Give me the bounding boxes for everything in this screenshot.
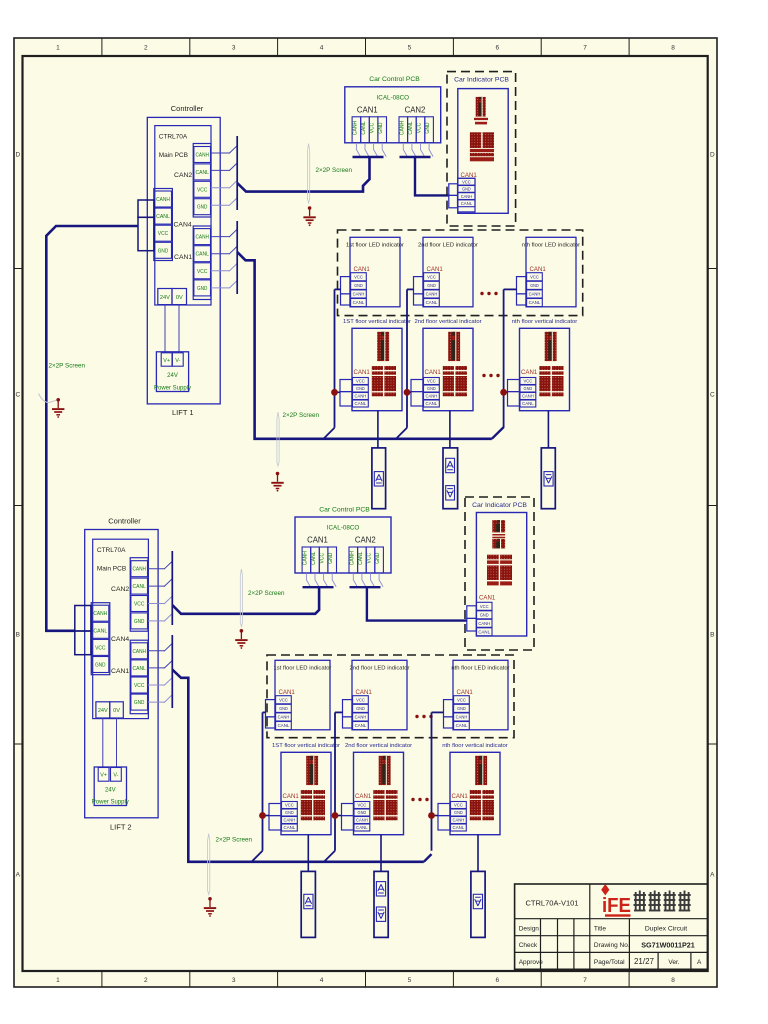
car control PCB (LIFT 2): [295, 507, 391, 574]
svg-text:2×2P Screen: 2×2P Screen: [316, 167, 353, 174]
svg-text:C: C: [710, 391, 715, 398]
svg-text:3: 3: [232, 45, 236, 52]
svg-text:24V: 24V: [105, 788, 116, 794]
svg-text:CAN1: CAN1: [427, 266, 444, 273]
svg-text:Design: Design: [519, 925, 540, 932]
ground (lift2 car cable screen): [235, 629, 247, 649]
svg-text:V-: V-: [175, 358, 180, 364]
ellipsis (bank 2 vertical row): [411, 798, 428, 801]
svg-text:CANH: CANH: [529, 292, 541, 297]
svg-text:CANH: CANH: [399, 121, 405, 136]
svg-text:2nd floor LED indicator: 2nd floor LED indicator: [350, 666, 410, 672]
svg-text:VCC: VCC: [134, 683, 144, 689]
svg-text:B: B: [16, 631, 20, 638]
svg-text:CAN1: CAN1: [354, 266, 371, 273]
svg-text:Main PCB: Main PCB: [159, 152, 188, 159]
svg-text:CANH: CANH: [352, 121, 358, 136]
svg-text:CANH: CANH: [355, 715, 367, 720]
IFE logo: [601, 884, 631, 917]
svg-text:GND: GND: [158, 248, 168, 254]
svg-text:CANL: CANL: [461, 201, 473, 206]
wire drop to hall box 2 (bank 1): [449, 411, 451, 448]
wire feed vertical indicator 1 (bank 2): [263, 815, 270, 817]
ground (bank 1 riser screen): [271, 472, 283, 492]
svg-text:CANH: CANH: [284, 818, 296, 823]
junction (bank 1 bus 1): [331, 389, 338, 396]
connector CAN2 (LIFT 2): [111, 558, 148, 632]
LED arrow matrix (car indicator PCB 2): [492, 520, 505, 548]
svg-text:CANL: CANL: [408, 121, 414, 135]
svg-text:CAN1: CAN1: [279, 689, 296, 696]
svg-text:Car Control PCB: Car Control PCB: [369, 76, 420, 83]
svg-text:V+: V+: [100, 773, 107, 779]
wire feed LED indicator (bank 1 x=503.6): [504, 288, 517, 290]
LED digit matrix (car indicator PCB 2): [487, 555, 512, 586]
wire feed vertical indicator n (bank 1): [504, 391, 508, 393]
plug CAN4 (LIFT 2): [75, 606, 91, 655]
controller LIFT 2: [85, 517, 158, 832]
svg-text:1ST floor vertical indicator: 1ST floor vertical indicator: [272, 743, 340, 749]
svg-text:CAN1: CAN1: [457, 689, 474, 696]
screen symbol (lift1 car cable): [308, 144, 310, 203]
hall call buttons up/down (bank 2 floor 2): [374, 871, 388, 937]
svg-text:CAN2: CAN2: [405, 105, 426, 114]
svg-text:24V: 24V: [160, 295, 170, 301]
screen symbol (lift2 car cable): [240, 569, 242, 627]
svg-text:VCC: VCC: [454, 803, 463, 808]
svg-text:LIFT 2: LIFT 2: [110, 823, 132, 832]
2nd floor LED indicator (bank 1): [418, 237, 478, 306]
svg-text:CANH: CANH: [522, 394, 534, 399]
svg-text:GND: GND: [95, 663, 105, 669]
svg-text:GND: GND: [197, 205, 207, 211]
svg-text:GND: GND: [356, 706, 365, 711]
connector CAN1 (car indicator PCB 1): [458, 172, 478, 212]
svg-text:3: 3: [232, 977, 236, 984]
screen symbol (bank 2 riser cable): [208, 834, 210, 895]
svg-text:CANH: CANH: [456, 715, 468, 720]
hall call button down (bank 1 floor n): [541, 448, 555, 509]
svg-text:CAN4: CAN4: [111, 636, 129, 643]
svg-text:CANH: CANH: [355, 394, 367, 399]
bus taps to trunk (bank 1): [324, 427, 504, 439]
LED arrow matrix (nth floor vertical indicator bank 1): [545, 332, 557, 361]
junction (bank 1 bus n): [500, 389, 507, 396]
svg-text:2: 2: [144, 977, 148, 984]
wire drop to hall box 1 (bank 2): [307, 835, 309, 872]
svg-text:Controller: Controller: [171, 104, 204, 113]
connector CAN1 (nth floor vertical indicator bank 2): [451, 793, 469, 831]
car indicator PCB (LIFT 1): [447, 72, 516, 226]
wire feed LED indicator (bank 2 x=262.5): [263, 711, 266, 713]
connector CAN1 (nth floor vertical indicator bank 1): [520, 369, 538, 407]
nth floor vertical indicator (bank 2): [442, 743, 508, 835]
car control PCB (LIFT 1): [345, 76, 441, 143]
wire feed LED indicator (bank 2 x=335): [335, 711, 343, 713]
svg-text:CTRL70A-V101: CTRL70A-V101: [526, 899, 579, 908]
wire CAN2 to car indicator PCB 2: [367, 587, 467, 620]
svg-text:CANL: CANL: [355, 723, 367, 728]
svg-text:Drawing No.: Drawing No.: [594, 942, 630, 949]
svg-text:CANL: CANL: [133, 666, 146, 672]
svg-text:ICAL-08CO: ICAL-08CO: [377, 94, 410, 101]
svg-text:CANL: CANL: [361, 121, 367, 135]
svg-text:CANL: CANL: [355, 401, 367, 406]
LED digit matrix (1ST floor vertical indicator bank 2): [301, 790, 325, 820]
svg-text:CANH: CANH: [93, 611, 107, 617]
svg-text:VCC: VCC: [462, 179, 471, 184]
wire feed vertical indicator 2 (bank 1): [407, 391, 411, 393]
svg-text:GND: GND: [480, 613, 489, 618]
svg-text:Power Supply: Power Supply: [92, 800, 129, 806]
svg-text:CAN1: CAN1: [307, 536, 328, 545]
plug (nth floor LED indicator bank 2): [444, 700, 454, 728]
svg-text:CAN1: CAN1: [356, 689, 373, 696]
wire 0V to power supply (LIFT 2): [116, 718, 118, 768]
svg-text:CANL: CANL: [522, 401, 534, 406]
wire drop to hall box 1 (bank 1): [377, 411, 379, 448]
LED digit matrix (2nd floor vertical indicator bank 1): [443, 366, 467, 396]
wires CAN1 terminals (LIFT 2): [148, 643, 173, 703]
2nd floor LED indicator (bank 2): [350, 660, 410, 730]
svg-text:VCC: VCC: [279, 697, 288, 702]
svg-text:CANL: CANL: [196, 252, 209, 258]
svg-text:1st floor LED indicator: 1st floor LED indicator: [346, 243, 404, 249]
svg-text:CANL: CANL: [196, 170, 209, 176]
plug (car indicator PCB 2): [467, 606, 477, 631]
connector CAN1 (car control PCB 2): [302, 547, 336, 573]
wire CAN4 link lift1-lift2: [46, 226, 138, 631]
svg-text:5: 5: [408, 977, 412, 984]
svg-text:V+: V+: [163, 358, 170, 364]
svg-text:2×2P Screen: 2×2P Screen: [283, 412, 320, 419]
svg-text:A: A: [16, 871, 21, 878]
svg-text:CANL: CANL: [356, 825, 368, 830]
LED arrow matrix (2nd floor vertical indicator bank 2): [379, 756, 391, 785]
svg-text:GND: GND: [285, 810, 294, 815]
svg-text:CANH: CANH: [196, 153, 209, 159]
svg-text:CANL: CANL: [133, 584, 146, 590]
svg-text:Car Control PCB: Car Control PCB: [319, 507, 370, 514]
svg-text:VCC: VCC: [356, 379, 365, 384]
svg-text:B: B: [710, 631, 714, 638]
plug (2nd floor vertical indicator bank 2): [342, 804, 354, 831]
bus CAN1 (LIFT 2): [171, 635, 173, 708]
connector CAN1 (1ST floor vertical indicator bank 2): [282, 793, 300, 831]
svg-text:CAN2: CAN2: [174, 172, 192, 179]
svg-text:nth floor vertical indicator: nth floor vertical indicator: [512, 319, 578, 325]
junction (bank 2 bus n): [428, 812, 435, 819]
ground (lift1 car cable screen): [303, 206, 315, 226]
bus riser x=335 (bank 2): [334, 712, 336, 850]
svg-text:CANL: CANL: [93, 628, 107, 634]
ground (bank 2 riser screen): [204, 897, 216, 917]
svg-text:VCC: VCC: [480, 604, 489, 609]
svg-text:CANH: CANH: [278, 715, 290, 720]
plug (1st floor LED indicator bank 1): [341, 277, 351, 305]
wire feed LED indicator (bank 1 x=334.5): [335, 288, 341, 290]
svg-text:8: 8: [671, 977, 675, 984]
svg-text:VCC: VCC: [367, 553, 373, 564]
ground (CAN4 link screen): [52, 398, 64, 418]
LED digit matrix (1ST floor vertical indicator bank 1): [372, 366, 396, 396]
svg-text:1ST floor vertical indicator: 1ST floor vertical indicator: [343, 319, 411, 325]
svg-text:CANH: CANH: [426, 394, 438, 399]
svg-text:VCC: VCC: [358, 803, 367, 808]
svg-text:1: 1: [56, 45, 60, 52]
svg-text:0V: 0V: [113, 708, 120, 714]
svg-text:CAN1: CAN1: [452, 793, 469, 800]
svg-text:4: 4: [320, 977, 324, 984]
svg-text:CANL: CANL: [353, 300, 365, 305]
title block: [515, 884, 708, 969]
svg-text:CANL: CANL: [426, 300, 438, 305]
1ST floor vertical indicator (bank 1): [343, 319, 411, 411]
svg-text:5: 5: [408, 45, 412, 52]
wire CAN2 to car control PCB (LIFT 1): [237, 157, 369, 191]
hall indicators enclosure (bank 2): [267, 655, 514, 738]
wires CAN1 terminals (LIFT 1): [211, 229, 238, 289]
svg-text:GND: GND: [425, 122, 431, 134]
wires CAN2 terminals (LIFT 1): [211, 145, 238, 206]
svg-text:VCC: VCC: [530, 274, 539, 279]
svg-text:VCC: VCC: [134, 602, 144, 608]
bus riser x=334.5 (bank 1): [334, 289, 336, 427]
connector CAN4 (LIFT 1): [154, 189, 192, 261]
svg-text:CANH: CANH: [356, 818, 368, 823]
svg-text:4: 4: [320, 45, 324, 52]
svg-text:CANH: CANH: [426, 292, 438, 297]
bus taps to trunk (bank 2): [252, 851, 432, 862]
connector CAN1 (car control PCB 1): [352, 117, 386, 143]
LED arrow matrix (1ST floor vertical indicator bank 2): [306, 756, 318, 785]
svg-text:7: 7: [583, 45, 587, 52]
nth floor vertical indicator (bank 1): [512, 319, 578, 411]
svg-text:2: 2: [144, 45, 148, 52]
ellipsis (bank 2 LED row): [415, 715, 432, 718]
LED digit matrix (2nd floor vertical indicator bank 2): [373, 790, 397, 820]
svg-text:iFE: iFE: [602, 894, 631, 917]
connector CAN2 (LIFT 1): [174, 144, 211, 218]
svg-text:0V: 0V: [176, 295, 183, 301]
wire 24V to power supply (LIFT 2): [102, 718, 104, 768]
svg-text:GND: GND: [134, 619, 144, 625]
wire feed LED indicator (bank 1 x=407): [407, 288, 414, 290]
power supply 24V (LIFT 2): [92, 767, 129, 806]
connector CAN1 (2nd floor vertical indicator bank 2): [354, 793, 372, 831]
svg-text:CAN1: CAN1: [425, 369, 442, 376]
screen pigtail (CAN4 link): [39, 394, 59, 403]
hall call button up (bank 2 floor 1): [301, 871, 315, 937]
svg-text:GND: GND: [378, 122, 384, 134]
svg-text:Power Supply: Power Supply: [154, 386, 191, 392]
svg-text:CANL: CANL: [478, 630, 490, 635]
svg-text:CAN1: CAN1: [357, 105, 378, 114]
svg-text:VCC: VCC: [158, 231, 168, 237]
wire 0V to power supply (LIFT 1): [178, 305, 180, 353]
bus riser x=407 (bank 1): [406, 289, 408, 427]
svg-text:GND: GND: [134, 700, 144, 706]
controller LIFT 1: [147, 104, 220, 417]
svg-text:Page/Total: Page/Total: [594, 959, 625, 966]
svg-text:CANL: CANL: [529, 300, 541, 305]
svg-text:VCC: VCC: [427, 274, 436, 279]
LED digit matrix (nth floor vertical indicator bank 1): [539, 366, 563, 396]
svg-text:CAN2: CAN2: [111, 586, 129, 593]
wire feed vertical indicator n (bank 2): [432, 815, 439, 817]
svg-text:CANH: CANH: [302, 551, 308, 566]
plug (1ST floor vertical indicator bank 2): [269, 804, 281, 831]
wires CAN2 terminals (LIFT 2): [148, 561, 173, 622]
svg-text:CANH: CANH: [156, 197, 170, 203]
plug CAN4 (LIFT 1): [138, 200, 154, 251]
svg-text:Car Indicator PCB: Car Indicator PCB: [472, 502, 527, 509]
plug (1st floor LED indicator bank 2): [266, 700, 276, 728]
svg-text:CANL: CANL: [426, 401, 438, 406]
svg-text:CANL: CANL: [156, 214, 170, 220]
screen symbol (bank 1 riser cable): [277, 412, 279, 466]
svg-text:CAN1: CAN1: [283, 793, 300, 800]
wire drop to hall box n (bank 1): [547, 411, 549, 448]
1st floor LED indicator (bank 1): [346, 237, 404, 306]
cable legs CAN1 (car control PCB 1): [353, 143, 387, 157]
LED digit matrix (car indicator PCB 1): [470, 132, 494, 161]
connector CAN2 (car control PCB 1): [399, 117, 433, 143]
logo chinese characters: [634, 891, 691, 911]
svg-text:2nd floor LED indicator: 2nd floor LED indicator: [418, 243, 478, 249]
connector CAN2 (car control PCB 2): [349, 547, 383, 573]
svg-text:VCC: VCC: [457, 697, 466, 702]
svg-text:CAN1: CAN1: [355, 793, 372, 800]
svg-text:CAN1: CAN1: [521, 369, 538, 376]
connector CAN1 (LIFT 1): [174, 226, 211, 300]
svg-text:Duplex Circuit: Duplex Circuit: [645, 925, 687, 932]
svg-text:GND: GND: [524, 386, 533, 391]
bus riser x=262.5 (bank 2): [262, 712, 264, 850]
svg-text:CAN1: CAN1: [174, 254, 192, 261]
svg-text:GND: GND: [530, 283, 539, 288]
power terminals 24V / 0V (LIFT 1): [158, 289, 187, 305]
svg-text:VCC: VCC: [285, 803, 294, 808]
svg-text:2nd floor vertical indicator: 2nd floor vertical indicator: [414, 319, 481, 325]
svg-text:GND: GND: [356, 386, 365, 391]
svg-text:CANH: CANH: [453, 818, 465, 823]
svg-text:CANH: CANH: [461, 194, 472, 199]
svg-text:Check: Check: [519, 942, 538, 949]
wire feed vertical indicator 2 (bank 2): [335, 815, 342, 817]
2nd floor vertical indicator (bank 1): [414, 319, 481, 411]
svg-text:A: A: [697, 959, 702, 966]
svg-text:1: 1: [56, 977, 60, 984]
svg-text:1st floor LED indicator: 1st floor LED indicator: [274, 666, 332, 672]
plug (1ST floor vertical indicator bank 1): [340, 380, 352, 407]
LED arrow matrix (nth floor vertical indicator bank 2): [475, 756, 487, 785]
svg-text:CANL: CANL: [311, 551, 317, 565]
bus riser x=503.6 (bank 1): [503, 289, 505, 427]
LED arrow matrix (1ST floor vertical indicator bank 1): [377, 332, 389, 361]
svg-text:Ver.: Ver.: [668, 959, 679, 966]
wire drop to hall box n (bank 2): [477, 835, 479, 872]
cable legs CAN2 (car control PCB 2): [350, 573, 384, 587]
svg-text:GND: GND: [197, 286, 207, 292]
hall call button down (bank 2 floor n): [471, 871, 485, 937]
svg-text:VCC: VCC: [356, 697, 365, 702]
svg-text:CAN1: CAN1: [530, 266, 547, 273]
svg-text:Title: Title: [594, 925, 606, 932]
svg-text:GND: GND: [354, 283, 363, 288]
svg-text:CANL: CANL: [278, 723, 290, 728]
hall call buttons up/down (bank 1 floor 2): [443, 448, 458, 509]
wire CAN1 to hall indicators (LIFT 2): [172, 670, 423, 862]
svg-text:LIFT 1: LIFT 1: [172, 408, 194, 417]
svg-text:GND: GND: [375, 552, 381, 564]
svg-text:CAN1: CAN1: [479, 595, 496, 602]
svg-text:VCC: VCC: [354, 274, 363, 279]
svg-text:2×2P Screen: 2×2P Screen: [248, 590, 285, 597]
svg-text:CANH: CANH: [478, 621, 490, 626]
cable legs CAN2 (car control PCB 1): [400, 143, 434, 157]
svg-text:CTRL70A: CTRL70A: [159, 134, 188, 141]
bus CAN2 (LIFT 1): [236, 136, 238, 210]
wire drop to hall box 2 (bank 2): [380, 835, 382, 872]
junction (bank 1 bus 2): [404, 389, 411, 396]
plug (nth floor vertical indicator bank 1): [508, 380, 520, 407]
nth floor LED indicator (bank 2): [451, 660, 509, 730]
cable legs CAN1 (car control PCB 2): [303, 573, 337, 587]
plug (2nd floor LED indicator bank 2): [343, 700, 353, 728]
power terminals 24V / 0V (LIFT 2): [96, 702, 123, 718]
svg-text:2×2P Screen: 2×2P Screen: [216, 837, 253, 844]
connector CAN1 (LIFT 2): [111, 640, 148, 714]
svg-text:D: D: [15, 151, 20, 158]
svg-text:CANH: CANH: [196, 235, 209, 241]
wire CAN2 to car indicator PCB 1: [415, 157, 449, 195]
svg-text:VCC: VCC: [197, 269, 207, 275]
svg-text:GND: GND: [279, 706, 288, 711]
svg-text:VCC: VCC: [320, 553, 326, 564]
svg-text:21/27: 21/27: [634, 957, 655, 966]
svg-text:SG71W0011P21: SG71W0011P21: [641, 940, 695, 949]
svg-text:CTRL70A: CTRL70A: [97, 547, 126, 554]
svg-text:Approve: Approve: [519, 959, 544, 966]
plug (2nd floor vertical indicator bank 1): [411, 380, 423, 407]
wire feed LED indicator (bank 2 x=431.5): [432, 711, 444, 713]
wire feed vertical indicator 1 (bank 1): [335, 391, 341, 393]
svg-text:GND: GND: [427, 386, 436, 391]
wire CAN2 to car control PCB (LIFT 2): [172, 587, 319, 614]
svg-text:GND: GND: [462, 187, 471, 192]
svg-text:D: D: [710, 151, 715, 158]
bus CAN1 (LIFT 1): [236, 221, 238, 294]
LED arrow matrix (2nd floor vertical indicator bank 1): [448, 332, 460, 361]
1st floor LED indicator (bank 2): [274, 660, 332, 730]
connector CAN4 (LIFT 2): [91, 603, 129, 675]
svg-text:A: A: [710, 871, 715, 878]
svg-text:2nd floor vertical indicator: 2nd floor vertical indicator: [345, 743, 412, 749]
svg-text:CANL: CANL: [284, 825, 296, 830]
svg-text:CAN4: CAN4: [174, 222, 192, 229]
svg-text:6: 6: [495, 977, 499, 984]
svg-text:CANL: CANL: [358, 551, 364, 565]
svg-text:CANH: CANH: [349, 551, 355, 566]
svg-text:Main PCB: Main PCB: [97, 566, 126, 573]
plug (2nd floor LED indicator bank 1): [414, 277, 424, 305]
svg-text:VCC: VCC: [370, 122, 376, 133]
svg-text:GND: GND: [454, 810, 463, 815]
svg-text:CANH: CANH: [133, 649, 146, 655]
ellipsis (bank 1 vertical row): [482, 374, 499, 377]
svg-text:Car Indicator PCB: Car Indicator PCB: [454, 77, 509, 84]
